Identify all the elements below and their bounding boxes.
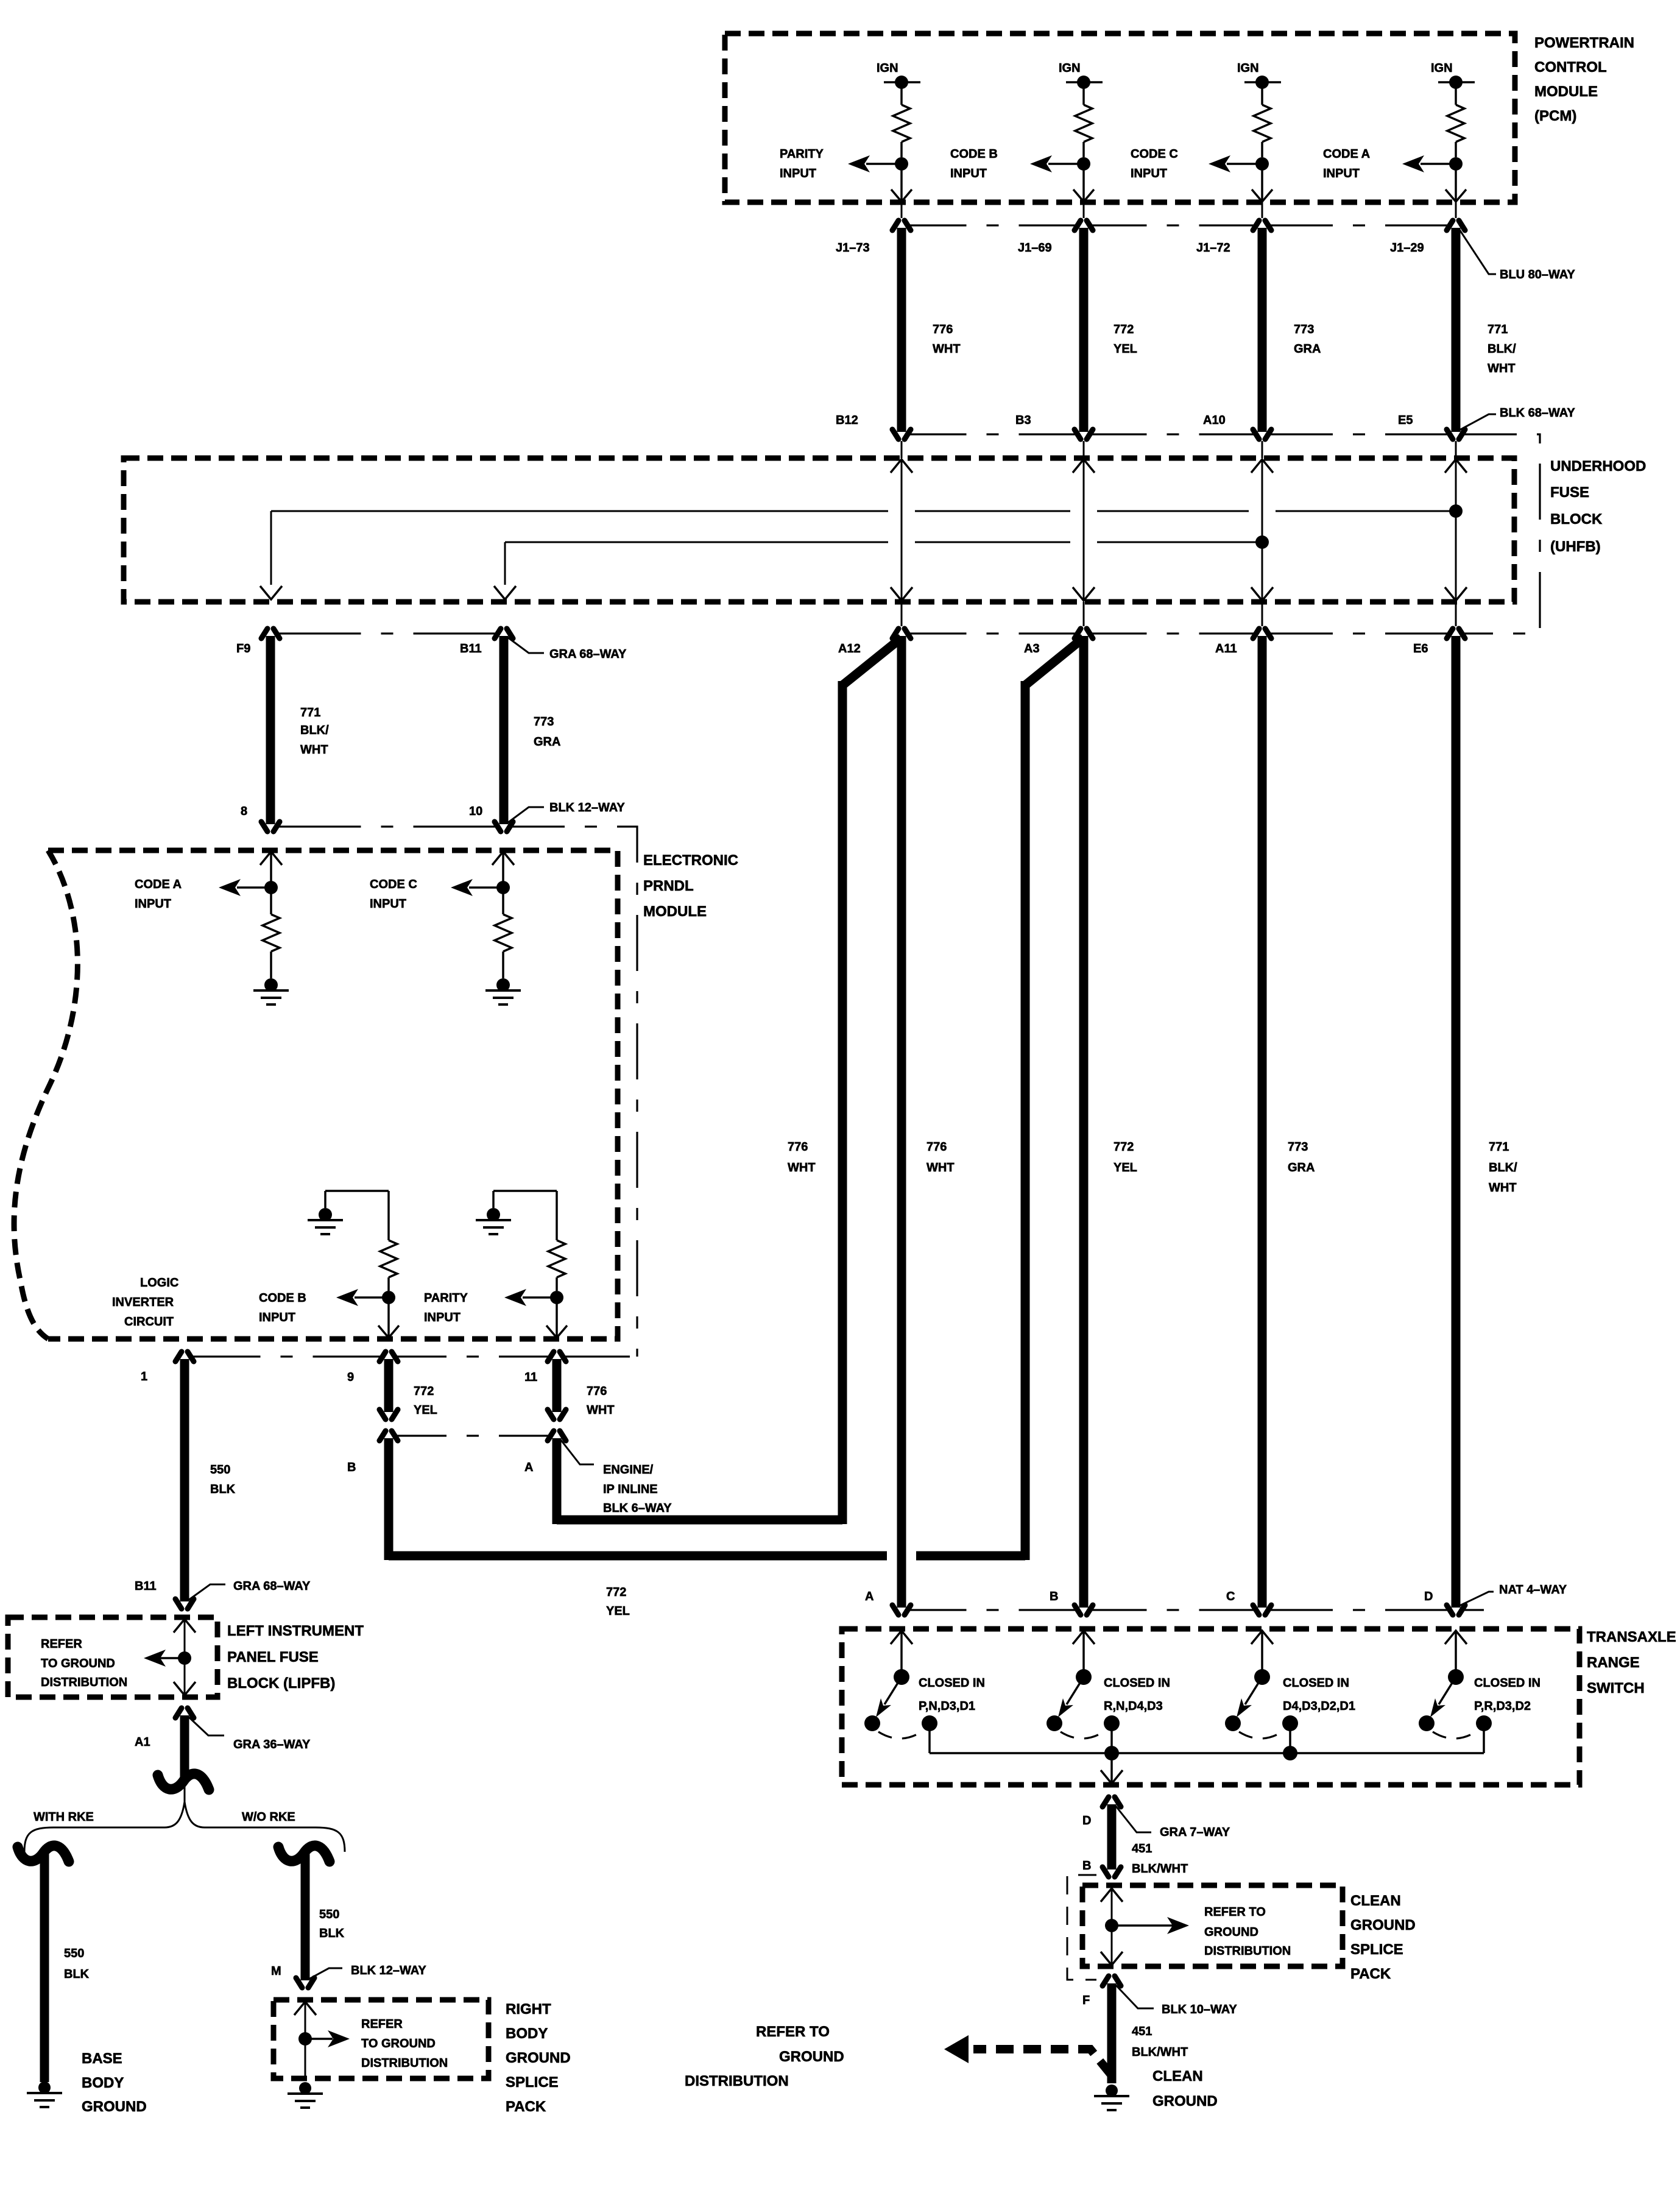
- svg-text:PACK: PACK: [1350, 1966, 1391, 1982]
- right body ground splice pack title: [506, 2001, 571, 2115]
- clean ground symbol: [1094, 2085, 1129, 2110]
- connector row B12/B3/A10/E5 (BLK 68-WAY) dashed line: [909, 433, 1449, 435]
- pin M connector Y (BLK 12-WAY): [271, 1965, 314, 1988]
- svg-text:REFER: REFER: [41, 1637, 82, 1651]
- pin A connector Y: [524, 1431, 566, 1474]
- svg-text:IGN: IGN: [1431, 62, 1453, 75]
- wire 772 YEL branch (A3 diagonal to PRNDL pin 9): [389, 638, 1084, 1618]
- svg-text:WHT: WHT: [1489, 1181, 1517, 1195]
- pin J1&#8211;72 connector Y: [1196, 202, 1271, 255]
- switch contact A (transaxle range switch): [864, 1631, 937, 1739]
- wire 776 WHT (pin 11) with flow arrow: [548, 1359, 615, 1419]
- svg-text:776: 776: [926, 1140, 947, 1154]
- svg-text:INVERTER: INVERTER: [112, 1296, 174, 1309]
- svg-text:CLEAN: CLEAN: [1350, 1893, 1401, 1909]
- svg-text:SPLICE: SPLICE: [506, 2074, 559, 2091]
- ground (CODE C): [485, 978, 521, 1004]
- svg-text:771: 771: [1488, 323, 1508, 336]
- powertrain control module (PCM) dashed box: [725, 34, 1515, 202]
- svg-text:CLEAN: CLEAN: [1152, 2068, 1203, 2085]
- wire 550 BLK (pin 1 to LIPFB B11): [185, 1359, 236, 1601]
- UHFB internal bus to B11 (junction at A10 wire): [494, 535, 1269, 599]
- pin B12 connector Y: [836, 414, 911, 439]
- svg-text:SWITCH: SWITCH: [1587, 1680, 1645, 1696]
- svg-text:GRA 68–WAY: GRA 68–WAY: [549, 648, 627, 661]
- svg-text:INPUT: INPUT: [135, 897, 171, 911]
- svg-text:A1: A1: [135, 1735, 150, 1749]
- switch B closed-in label: [1104, 1676, 1170, 1713]
- connector boundary line right of PRNDL module: [509, 827, 637, 1357]
- svg-text:BLK/: BLK/: [1488, 342, 1516, 356]
- svg-text:P,R,D3,D2: P,R,D3,D2: [1474, 1700, 1531, 1713]
- transaxle range switch dashed box: [842, 1629, 1579, 1785]
- splice pack feed with ground distribution arrow (clean): [1101, 1888, 1189, 1965]
- CODE B exit arrow to pin: [378, 1297, 399, 1338]
- CODE B junction and output arrow: [336, 1289, 395, 1306]
- clean ground splice pack dashed box: [1082, 1885, 1343, 1966]
- svg-text:LEFT INSTRUMENT: LEFT INSTRUMENT: [227, 1623, 364, 1639]
- wire 771 BLK/WHT (F9 to pin 8): [270, 636, 329, 824]
- svg-text:A12: A12: [838, 642, 861, 655]
- CODE C junction and output arrow: [451, 879, 510, 896]
- svg-text:PRNDL: PRNDL: [643, 878, 694, 894]
- UHFB feed-through path 3 with arrows: [1251, 441, 1273, 626]
- wire 550 BLK (w/o RKE to right body ground splice pack): [305, 1854, 345, 1980]
- left instrument panel fuse block (LIPFB) dashed box: [8, 1617, 217, 1697]
- svg-text:CLOSED IN: CLOSED IN: [919, 1676, 985, 1690]
- svg-text:DISTRIBUTION: DISTRIBUTION: [361, 2056, 448, 2070]
- resistor R2 (IGN pull-up): [1075, 82, 1092, 157]
- svg-text:GRA 36–WAY: GRA 36–WAY: [233, 1738, 311, 1751]
- svg-text:10: 10: [469, 805, 482, 818]
- PCM pin exit arrow 4: [1445, 164, 1466, 202]
- UHFB title text: [1550, 458, 1646, 555]
- connector boundary bracket (clean ground splice pack): [1067, 1875, 1096, 1980]
- svg-text:WHT: WHT: [933, 342, 961, 356]
- svg-text:DISTRIBUTION: DISTRIBUTION: [1204, 1944, 1291, 1958]
- PCM pin exit arrow 1: [891, 164, 912, 202]
- svg-text:772: 772: [1114, 1140, 1134, 1154]
- pin C connector Y (transaxle): [1226, 1590, 1271, 1615]
- clean ground label: [1152, 2068, 1218, 2109]
- svg-text:CONTROL: CONTROL: [1534, 59, 1607, 76]
- svg-text:GROUND: GROUND: [506, 2050, 571, 2066]
- UHFB feed-through path 4 with arrows: [1445, 441, 1467, 626]
- node junction 3: [1255, 157, 1269, 171]
- GRA 68-WAY label (B11): [507, 637, 627, 661]
- pin 10 connector Y: [469, 805, 513, 831]
- resistor (CODE C pull-down): [495, 888, 512, 978]
- splice pack feed with ground distribution arrow: [294, 2002, 350, 2081]
- svg-text:PANEL FUSE: PANEL FUSE: [227, 1649, 319, 1665]
- BLK 12-WAY label (lower): [309, 1964, 426, 1979]
- svg-text:GRA: GRA: [534, 735, 560, 749]
- wire 773 GRA (A11 to switch C): [1262, 636, 1315, 1608]
- svg-text:776: 776: [933, 323, 953, 336]
- svg-text:771: 771: [1489, 1140, 1509, 1154]
- option splice curl (A1): [158, 1774, 209, 1790]
- svg-text:BLOCK (LIPFB): BLOCK (LIPFB): [227, 1675, 335, 1692]
- pin A10 connector Y: [1203, 414, 1271, 439]
- svg-text:INPUT: INPUT: [1323, 167, 1360, 180]
- option splice curl (with RKE): [18, 1846, 69, 1862]
- IGN node 4: [1431, 62, 1475, 89]
- pin A12 connector Y: [838, 629, 911, 655]
- svg-text:E6: E6: [1413, 642, 1428, 655]
- svg-text:GRA: GRA: [1288, 1161, 1315, 1174]
- svg-text:A3: A3: [1024, 642, 1040, 655]
- wire 776 WHT (A12 to switch A): [902, 636, 955, 1608]
- CODE B label: [259, 1291, 306, 1324]
- svg-text:C: C: [1226, 1590, 1235, 1603]
- CODE B input arrow: [1030, 155, 1084, 172]
- svg-text:J1–72: J1–72: [1196, 241, 1230, 255]
- node junction 4: [1449, 157, 1463, 171]
- svg-text:P,N,D3,D1: P,N,D3,D1: [919, 1700, 975, 1713]
- svg-text:TO GROUND: TO GROUND: [41, 1657, 115, 1670]
- svg-text:INPUT: INPUT: [950, 167, 987, 180]
- svg-text:CODE B: CODE B: [259, 1291, 306, 1305]
- LIPFB title text: [227, 1623, 364, 1692]
- svg-text:J1–29: J1–29: [1390, 241, 1424, 255]
- UHFB feed-through path 1 with arrows: [891, 441, 912, 626]
- svg-text:UNDERHOOD: UNDERHOOD: [1550, 458, 1646, 475]
- resistor (CODE B divider): [380, 1191, 397, 1291]
- refer to ground distribution thick dashed arrow: [944, 2035, 1111, 2075]
- svg-text:RIGHT: RIGHT: [506, 2001, 551, 2018]
- PARITY input arrow: [848, 155, 902, 172]
- CODE A input label: [1323, 147, 1370, 180]
- svg-text:CODE A: CODE A: [1323, 147, 1370, 161]
- svg-text:WHT: WHT: [926, 1161, 955, 1174]
- svg-text:GRA 7–WAY: GRA 7–WAY: [1160, 1826, 1230, 1839]
- svg-text:BLOCK: BLOCK: [1550, 511, 1603, 528]
- switch contact B (transaxle range switch): [1046, 1631, 1120, 1739]
- PARITY input label: [780, 147, 824, 180]
- PARITY exit arrow to pin: [546, 1297, 567, 1338]
- svg-text:BLK: BLK: [319, 1927, 345, 1940]
- svg-text:BLK: BLK: [210, 1483, 236, 1496]
- ground (PARITY divider): [476, 1191, 557, 1234]
- svg-text:BLK/WHT: BLK/WHT: [1132, 2046, 1188, 2059]
- svg-text:773: 773: [534, 715, 554, 729]
- svg-text:11: 11: [524, 1371, 537, 1384]
- node junction 1: [895, 157, 908, 171]
- wire 772 YEL (pin 9) with flow arrow: [379, 1359, 437, 1419]
- IGN node 3: [1237, 62, 1281, 89]
- svg-text:CLOSED IN: CLOSED IN: [1283, 1676, 1349, 1690]
- option split brace WITH RKE / W/O RKE: [24, 1785, 345, 1852]
- svg-text:YEL: YEL: [414, 1403, 437, 1417]
- wire 771 BLK//WHT (PCM to UHFB): [1456, 228, 1516, 432]
- svg-text:D: D: [1424, 1590, 1433, 1603]
- svg-text:771: 771: [300, 706, 320, 719]
- resistor (PARITY divider): [548, 1191, 565, 1291]
- svg-text:MODULE: MODULE: [1534, 83, 1598, 100]
- svg-text:D: D: [1082, 1814, 1091, 1827]
- svg-text:GROUND: GROUND: [1350, 1917, 1416, 1933]
- svg-text:INPUT: INPUT: [259, 1311, 295, 1324]
- svg-text:D4,D3,D2,D1: D4,D3,D2,D1: [1283, 1700, 1355, 1713]
- svg-text:B3: B3: [1015, 414, 1031, 427]
- switch common bus: [930, 1729, 1484, 1760]
- svg-text:CIRCUIT: CIRCUIT: [124, 1315, 174, 1329]
- pin B connector Y: [347, 1431, 398, 1474]
- CODE A input arrow: [1402, 155, 1456, 172]
- PRNDL module title text: [643, 852, 738, 920]
- logic inverter circuit label: [112, 1276, 178, 1329]
- svg-text:POWERTRAIN: POWERTRAIN: [1534, 35, 1634, 51]
- IGN node 1: [877, 62, 920, 89]
- pin A1 connector Y (GRA 36-WAY): [135, 1708, 194, 1749]
- svg-text:B: B: [1082, 1859, 1091, 1873]
- svg-text:J1–73: J1–73: [836, 241, 870, 255]
- svg-text:WHT: WHT: [587, 1403, 615, 1417]
- right body ground splice pack dashed box: [274, 2000, 489, 2078]
- svg-text:BLK/: BLK/: [300, 724, 329, 737]
- pin B connector Y (transaxle): [1050, 1590, 1093, 1615]
- svg-text:WHT: WHT: [1488, 362, 1516, 375]
- svg-text:GRA 68–WAY: GRA 68–WAY: [233, 1580, 311, 1593]
- svg-text:REFER TO: REFER TO: [1204, 1905, 1266, 1919]
- pin B connector Y: [1082, 1859, 1121, 1877]
- NAT 4-WAY label: [1459, 1583, 1567, 1606]
- svg-text:BLU 80–WAY: BLU 80–WAY: [1500, 268, 1575, 281]
- CODE C label: [370, 878, 417, 911]
- CODE B input label: [950, 147, 998, 180]
- CODE A input arrow from pin: [260, 852, 282, 888]
- electronic PRNDL module dashed box with break-line left edge: [14, 850, 618, 1339]
- CODE C input label: [1131, 147, 1178, 180]
- svg-text:RANGE: RANGE: [1587, 1654, 1640, 1671]
- UHFB feed-through path 2 with arrows: [1073, 441, 1095, 626]
- switch contact D (transaxle range switch): [1419, 1631, 1492, 1739]
- svg-text:PARITY: PARITY: [780, 147, 824, 161]
- pin B11 connector Y (GRA 68-WAY): [135, 1580, 194, 1609]
- option splice curl (w/o RKE): [278, 1846, 330, 1862]
- wire 550 BLK (with RKE to base body ground): [44, 1854, 90, 2082]
- pin J1&#8211;29 connector Y: [1390, 202, 1465, 255]
- svg-text:451: 451: [1132, 1842, 1152, 1855]
- svg-text:BLK 10–WAY: BLK 10–WAY: [1162, 2003, 1237, 2016]
- GRA 36-WAY label: [188, 1717, 311, 1751]
- switch output exit arrow: [1101, 1753, 1123, 1784]
- pin B11 connector Y: [460, 629, 513, 655]
- svg-text:BLK 68–WAY: BLK 68–WAY: [1500, 406, 1575, 420]
- svg-text:BLK/: BLK/: [1489, 1161, 1517, 1174]
- BLK 10-WAY label: [1115, 1985, 1237, 2016]
- svg-text:YEL: YEL: [606, 1605, 630, 1618]
- svg-text:IP INLINE: IP INLINE: [603, 1483, 658, 1496]
- svg-text:PARITY: PARITY: [424, 1291, 468, 1305]
- svg-text:MODULE: MODULE: [643, 903, 707, 920]
- BLU 80-WAY label: [1459, 230, 1575, 281]
- switch A closed-in label: [919, 1676, 985, 1713]
- wire 771 BLK/WHT (E6 to switch D): [1456, 636, 1517, 1608]
- svg-text:776: 776: [587, 1385, 607, 1398]
- svg-text:TRANSAXLE: TRANSAXLE: [1587, 1629, 1676, 1645]
- BLK 12-WAY label: [507, 801, 625, 823]
- svg-text:R,N,D4,D3: R,N,D4,D3: [1104, 1700, 1163, 1713]
- svg-text:IGN: IGN: [1059, 62, 1081, 75]
- svg-text:BLK 12–WAY: BLK 12–WAY: [351, 1964, 426, 1977]
- base body ground label: [82, 2050, 147, 2115]
- svg-text:F: F: [1082, 1994, 1090, 2007]
- pin 9 connector Y: [347, 1352, 398, 1384]
- wire 550 BLK (A1 to splice option): [180, 1715, 189, 1778]
- CODE A label: [135, 878, 182, 911]
- svg-text:776: 776: [788, 1140, 808, 1154]
- svg-text:DISTRIBUTION: DISTRIBUTION: [685, 2073, 789, 2089]
- svg-text:SPLICE: SPLICE: [1350, 1941, 1403, 1958]
- UHFB internal bus to F9 (junction at E5 wire): [260, 504, 1463, 599]
- connector row F9/B11/A12/A3/A11/E6 dashed line: [278, 632, 1449, 634]
- svg-text:NAT 4–WAY: NAT 4–WAY: [1499, 1583, 1567, 1597]
- svg-text:BLK 12–WAY: BLK 12–WAY: [549, 801, 625, 814]
- connector row J1 (BLU 80-WAY) dashed line: [909, 224, 1449, 226]
- connector boundary hook right of UHFB: [1461, 434, 1540, 634]
- svg-text:INPUT: INPUT: [424, 1311, 461, 1324]
- node junction 2: [1077, 157, 1090, 171]
- svg-text:772: 772: [414, 1385, 434, 1398]
- svg-text:BASE: BASE: [82, 2050, 122, 2067]
- svg-text:REFER TO: REFER TO: [756, 2024, 830, 2040]
- svg-text:IGN: IGN: [877, 62, 898, 75]
- svg-text:GROUND: GROUND: [1204, 1926, 1258, 1939]
- svg-text:CLOSED IN: CLOSED IN: [1104, 1676, 1170, 1690]
- PCM pin exit arrow 3: [1252, 164, 1272, 202]
- svg-text:B: B: [1050, 1590, 1058, 1603]
- svg-text:TO GROUND: TO GROUND: [361, 2037, 436, 2050]
- svg-text:550: 550: [64, 1947, 84, 1960]
- pin E6 connector Y: [1413, 629, 1465, 655]
- LIPFB feed-through with ground distribution arrow: [144, 1619, 196, 1695]
- pin J1&#8211;73 connector Y: [836, 202, 911, 255]
- PCM title text: [1534, 35, 1634, 124]
- svg-text:(PCM): (PCM): [1534, 108, 1576, 124]
- svg-text:772: 772: [606, 1586, 626, 1599]
- PARITY junction and output arrow: [504, 1289, 563, 1306]
- svg-text:A11: A11: [1215, 642, 1237, 655]
- pin B3 connector Y: [1015, 414, 1093, 439]
- svg-text:8: 8: [241, 805, 247, 818]
- svg-text:CLOSED IN: CLOSED IN: [1474, 1676, 1541, 1690]
- pin 11 connector Y: [524, 1352, 566, 1384]
- svg-text:ELECTRONIC: ELECTRONIC: [643, 852, 738, 869]
- svg-text:A: A: [865, 1590, 874, 1603]
- svg-text:YEL: YEL: [1114, 1161, 1137, 1174]
- pin A3 connector Y: [1024, 629, 1093, 655]
- pin A connector Y (transaxle): [865, 1590, 911, 1615]
- svg-text:LOGIC: LOGIC: [140, 1276, 178, 1290]
- svg-text:BODY: BODY: [506, 2025, 548, 2042]
- wire 451 BLK/WHT (F to clean ground): [1112, 1983, 1188, 2083]
- svg-text:CODE B: CODE B: [950, 147, 998, 161]
- wire 773 GRA (PCM to UHFB): [1262, 228, 1321, 432]
- svg-text:B12: B12: [836, 414, 858, 427]
- svg-text:WHT: WHT: [788, 1161, 816, 1174]
- wire 772 YEL (A3 to switch B): [1084, 636, 1137, 1608]
- svg-text:PACK: PACK: [506, 2099, 546, 2115]
- wire 451 BLK/WHT (D to B): [1112, 1804, 1188, 1876]
- svg-text:FUSE: FUSE: [1550, 484, 1589, 501]
- resistor R4 (IGN pull-up): [1447, 82, 1464, 157]
- svg-text:1: 1: [141, 1370, 147, 1383]
- svg-text:M: M: [271, 1965, 281, 1978]
- refer to ground distribution label (CGSP): [1204, 1905, 1291, 1958]
- svg-text:773: 773: [1288, 1140, 1308, 1154]
- svg-text:9: 9: [347, 1371, 354, 1384]
- svg-text:BLK/WHT: BLK/WHT: [1132, 1862, 1188, 1876]
- pin E5 connector Y: [1398, 414, 1465, 439]
- wire 773 GRA (B11 to pin 10): [504, 636, 560, 824]
- switch D closed-in label: [1474, 1676, 1541, 1713]
- clean ground splice pack title: [1350, 1893, 1416, 1982]
- svg-text:BODY: BODY: [82, 2075, 124, 2091]
- svg-text:BLK 6–WAY: BLK 6–WAY: [603, 1502, 672, 1515]
- svg-text:IGN: IGN: [1237, 62, 1259, 75]
- pin D connector Y (GRA 7-WAY): [1082, 1797, 1121, 1827]
- svg-text:B11: B11: [460, 642, 482, 655]
- wire 776 WHT (PCM to UHFB): [902, 228, 961, 432]
- svg-text:ENGINE/: ENGINE/: [603, 1463, 654, 1477]
- svg-text:B: B: [347, 1461, 356, 1474]
- PCM pin exit arrow 2: [1073, 164, 1094, 202]
- svg-text:772: 772: [1114, 323, 1134, 336]
- GRA 68-WAY label (lower): [188, 1580, 311, 1600]
- switch C closed-in label: [1283, 1676, 1355, 1713]
- refer to ground distribution label (left of clean ground): [685, 2024, 844, 2089]
- CODE C input arrow: [1209, 155, 1262, 172]
- BLK 68-WAY label: [1459, 406, 1575, 430]
- IGN node 2: [1059, 62, 1103, 89]
- PARITY label: [424, 1291, 468, 1324]
- switch contact C (transaxle range switch): [1225, 1631, 1298, 1739]
- svg-text:W/O RKE: W/O RKE: [242, 1810, 295, 1824]
- connector row 8/10 (BLK 12-WAY) dashed line: [278, 825, 496, 827]
- wire 772 YEL (PCM to UHFB): [1084, 228, 1137, 432]
- svg-text:DISTRIBUTION: DISTRIBUTION: [41, 1676, 127, 1689]
- svg-text:INPUT: INPUT: [1131, 167, 1167, 180]
- pin 1 connector Y: [141, 1352, 194, 1383]
- pin F9 connector Y: [236, 629, 280, 655]
- CODE A junction and output arrow: [219, 879, 278, 896]
- svg-text:J1–69: J1–69: [1018, 241, 1052, 255]
- pin J1&#8211;69 connector Y: [1018, 202, 1093, 255]
- svg-text:F9: F9: [236, 642, 250, 655]
- svg-text:CODE C: CODE C: [1131, 147, 1178, 161]
- svg-text:CODE A: CODE A: [135, 878, 182, 891]
- svg-text:GROUND: GROUND: [1152, 2093, 1218, 2109]
- svg-text:A10: A10: [1203, 414, 1226, 427]
- svg-text:GROUND: GROUND: [82, 2099, 147, 2115]
- svg-text:A: A: [524, 1461, 533, 1474]
- svg-text:BLK: BLK: [64, 1968, 90, 1981]
- svg-text:GROUND: GROUND: [779, 2049, 844, 2065]
- svg-text:YEL: YEL: [1114, 342, 1137, 356]
- pin A11 connector Y: [1215, 629, 1271, 655]
- pin D connector Y (transaxle): [1424, 1590, 1465, 1615]
- resistor R3 (IGN pull-up): [1254, 82, 1271, 157]
- connector row A/B/C/D (NAT 4-WAY) dashed line: [909, 1609, 1484, 1611]
- transaxle range switch title: [1587, 1629, 1676, 1696]
- pin 8 connector Y: [241, 805, 280, 831]
- svg-text:REFER: REFER: [361, 2018, 403, 2031]
- svg-text:WITH RKE: WITH RKE: [34, 1810, 94, 1824]
- resistor (CODE A pull-down): [263, 888, 280, 978]
- svg-text:B11: B11: [135, 1580, 157, 1593]
- svg-text:WHT: WHT: [300, 743, 328, 757]
